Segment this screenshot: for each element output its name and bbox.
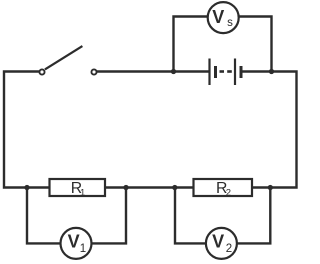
switch S1 left terminal bbox=[39, 69, 44, 74]
svg-text:V: V bbox=[212, 231, 224, 251]
svg-text:1: 1 bbox=[80, 187, 85, 198]
wire: top run between switch right terminal and battery left plate bbox=[94, 70, 209, 72]
voltmeter Vs body bbox=[208, 2, 239, 33]
voltmeter V2 body bbox=[206, 228, 237, 259]
junction: R2 right node bbox=[268, 185, 273, 190]
wire: voltmeter V2 branch (risers and bottom horizontal) bbox=[175, 188, 270, 244]
switch S1 blade bbox=[45, 46, 83, 69]
svg-text:1: 1 bbox=[80, 243, 86, 255]
wire: voltmeter V1 branch (risers and bottom horizontal) bbox=[27, 188, 126, 244]
wire: left loop (top-left horizontal, left side vertical, bottom-left horizontal) bbox=[4, 72, 50, 188]
switch S1 right terminal bbox=[91, 69, 96, 74]
svg-text:V: V bbox=[68, 231, 80, 251]
wire: bottom run between R1 and R2 bbox=[106, 186, 194, 188]
svg-text:2: 2 bbox=[226, 187, 231, 198]
junction: R1 right node bbox=[123, 185, 128, 190]
resistor R2 body bbox=[194, 179, 253, 196]
wire: voltmeter Vs branch (risers and top horizontals) bbox=[174, 17, 272, 72]
svg-text:V: V bbox=[212, 7, 224, 27]
battery dash (additional cells, left) bbox=[220, 70, 225, 73]
battery B1 long plate (right cell, positive) bbox=[234, 59, 236, 86]
battery B1 short plate (right cell, negative) bbox=[240, 66, 243, 78]
svg-text:s: s bbox=[227, 17, 233, 29]
junction: R1 left node bbox=[24, 185, 29, 190]
svg-text:2: 2 bbox=[226, 243, 232, 255]
battery dash (additional cells, right) bbox=[227, 70, 232, 73]
voltmeter V1 body bbox=[61, 228, 92, 259]
junction: R2 left node bbox=[172, 185, 177, 190]
junction: battery right node bbox=[269, 69, 274, 74]
battery B1 short plate (left cell, negative) bbox=[214, 66, 217, 78]
resistor R1 body bbox=[50, 179, 106, 196]
battery B1 long plate (left cell, positive) bbox=[208, 59, 210, 86]
wire: battery right to top-right corner, down right side, to resistor R2 bbox=[243, 72, 297, 188]
junction: battery left node bbox=[171, 69, 176, 74]
